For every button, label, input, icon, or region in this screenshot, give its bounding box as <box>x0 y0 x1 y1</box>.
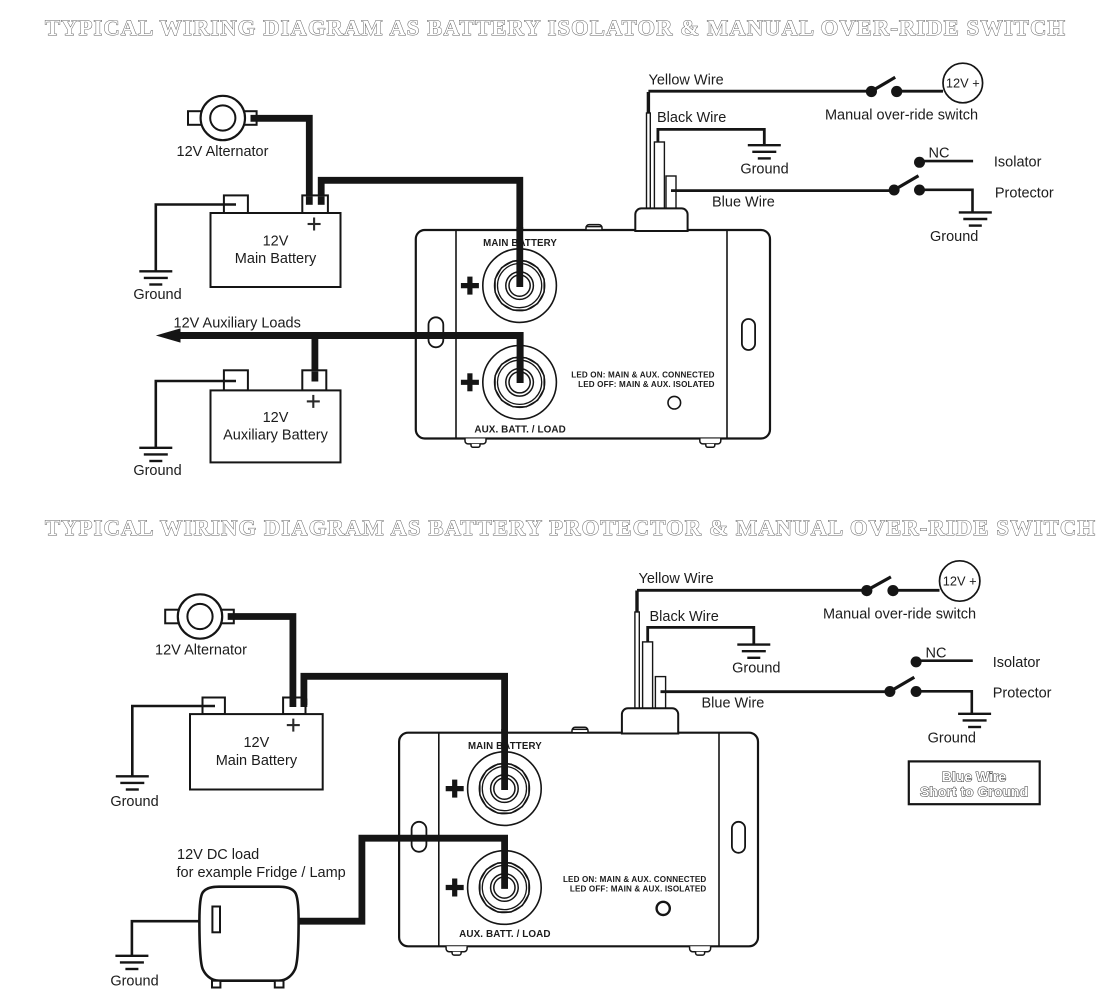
wire main battery B3 negative to ground <box>132 706 215 776</box>
svg-text:LED OFF: MAIN & AUX. ISOLATED: LED OFF: MAIN & AUX. ISOLATED <box>570 885 707 894</box>
blue wire lead and tube (U2) <box>655 677 885 712</box>
ground main battery B3 <box>116 776 149 789</box>
NC contact S2 <box>914 146 973 168</box>
svg-text:Ground: Ground <box>110 974 158 990</box>
foot 2 U2 <box>690 946 711 955</box>
svg-text:Blue Wire: Blue Wire <box>942 769 1007 785</box>
isolator device U2: body <box>399 733 758 947</box>
terminal MAIN BATTERY (U2) <box>468 752 542 826</box>
wire segment into U2 MAIN BATTERY terminal <box>501 729 508 790</box>
battery B3 terminal pin stubs <box>293 699 304 708</box>
manual over-ride switch S3 <box>861 577 939 596</box>
svg-text:LED ON: MAIN & AUX. CONNECTED: LED ON: MAIN & AUX. CONNECTED <box>571 370 714 379</box>
svg-text:Ground: Ground <box>133 287 181 303</box>
black wire lead and tube (U2) <box>643 627 754 712</box>
svg-text:Black Wire: Black Wire <box>657 110 726 126</box>
battery B2 terminal pin stub <box>311 371 318 381</box>
svg-text:Ground: Ground <box>930 229 978 245</box>
svg-text:for example Fridge / Lamp: for example Fridge / Lamp <box>177 865 346 881</box>
svg-text:Yellow Wire: Yellow Wire <box>649 73 724 89</box>
foot 1 U1 <box>465 439 486 448</box>
svg-text:12V Auxiliary Loads: 12V Auxiliary Loads <box>174 316 301 332</box>
label LED legend U2 <box>563 875 706 894</box>
NC contact S4 <box>911 646 973 668</box>
protector switch S2 <box>889 176 973 213</box>
12V+ supply circle S3 <box>940 561 980 601</box>
svg-text:12V Alternator: 12V Alternator <box>177 144 269 160</box>
plus mark main terminal U1 <box>461 277 479 295</box>
screw tab on top edge U2 <box>572 727 588 732</box>
blue wire lead and tube (U1) <box>666 176 890 210</box>
svg-text:12V: 12V <box>263 410 289 426</box>
svg-text:12V +: 12V + <box>946 76 980 91</box>
yellow wire lead into connector (U2) <box>635 591 639 713</box>
mounting slot right U2 <box>732 822 745 853</box>
svg-text:Ground: Ground <box>740 161 788 177</box>
DC load fridge symbol <box>199 887 298 988</box>
yellow wire lead into connector (U1) <box>647 92 651 210</box>
ground protector S4 <box>958 714 991 727</box>
foot 1 U2 <box>446 946 467 955</box>
terminal AUX. BATT. / LOAD (U2) <box>468 851 542 925</box>
wire DC load to ground <box>132 921 200 955</box>
plus mark main terminal U2 <box>446 780 464 798</box>
wire main battery B1 to device U1 MAIN BATTERY terminal <box>321 180 520 287</box>
battery B1 main: terminals <box>211 195 341 287</box>
wire 12V auxiliary loads (arrow) to U1 AUX terminal <box>178 336 520 384</box>
svg-text:Protector: Protector <box>995 185 1054 201</box>
svg-text:LED OFF: MAIN & AUX. ISOLATED: LED OFF: MAIN & AUX. ISOLATED <box>578 380 715 389</box>
protector switch S4 <box>884 677 971 714</box>
yellow wire line to manual over-ride switch S3 <box>637 589 866 592</box>
svg-text:Protector: Protector <box>993 686 1052 702</box>
wiring connector on U2 <box>622 708 678 733</box>
svg-text:Ground: Ground <box>133 463 181 479</box>
svg-text:12V: 12V <box>243 735 269 751</box>
svg-text:LED ON: MAIN & AUX. CONNECTED: LED ON: MAIN & AUX. CONNECTED <box>563 875 706 884</box>
svg-text:Manual over-ride switch: Manual over-ride switch <box>825 108 978 124</box>
battery B3 main: terminals <box>190 698 323 790</box>
svg-text:12V: 12V <box>263 233 289 249</box>
yellow wire line to manual over-ride switch S1 <box>648 90 870 93</box>
ground protector S2 <box>959 212 992 225</box>
svg-text:Auxiliary Battery: Auxiliary Battery <box>223 428 329 444</box>
svg-text:Short to Ground: Short to Ground <box>920 784 1028 800</box>
ground DC load <box>115 956 148 969</box>
note box: Blue Wire Short to Ground <box>909 761 1040 804</box>
mounting slot left U1 <box>429 317 444 347</box>
wire main battery B3 to device U2 MAIN BATTERY terminal <box>304 676 505 790</box>
wire auxiliary battery B2 negative to ground <box>156 381 236 448</box>
svg-text:Isolator: Isolator <box>993 655 1041 671</box>
ground auxiliary battery B2 <box>139 448 172 461</box>
terminal MAIN BATTERY (U1) <box>483 249 557 323</box>
mounting slot right U1 <box>742 319 755 350</box>
mounting slot left U2 <box>412 822 427 852</box>
ground black wire U1 <box>748 145 781 158</box>
svg-text:Blue Wire: Blue Wire <box>702 696 765 712</box>
plus terminal mark B2 auxiliary <box>307 395 320 408</box>
black wire lead and tube (U1) <box>654 129 764 210</box>
svg-text:NC: NC <box>929 146 950 162</box>
svg-text:Main Battery: Main Battery <box>216 753 298 769</box>
wire DC load to U2 AUX terminal <box>298 838 505 921</box>
ground main battery B1 <box>139 271 172 284</box>
svg-text:Blue Wire: Blue Wire <box>712 195 775 211</box>
svg-text:12V Alternator: 12V Alternator <box>155 643 247 659</box>
svg-text:Black Wire: Black Wire <box>650 609 719 625</box>
12V+ supply circle S1 <box>943 63 983 103</box>
svg-text:NC: NC <box>926 646 947 662</box>
svg-text:Main Battery: Main Battery <box>235 251 317 267</box>
plus mark aux terminal U2 <box>446 879 464 897</box>
LED indicator U1 <box>668 396 681 409</box>
label 12V DC load / for example Fridge / Lamp <box>177 847 346 881</box>
svg-text:Manual over-ride switch: Manual over-ride switch <box>823 607 976 623</box>
plus terminal mark B1 main <box>308 218 321 231</box>
wiring connector on U1 <box>635 208 687 231</box>
svg-text:Ground: Ground <box>110 794 158 810</box>
svg-text:12V DC load: 12V DC load <box>177 847 259 863</box>
battery B1 terminal pin stubs <box>309 196 321 204</box>
svg-text:AUX. BATT. / LOAD: AUX. BATT. / LOAD <box>459 929 550 940</box>
alternator G2 <box>165 594 234 638</box>
foot 2 U1 <box>700 439 721 448</box>
svg-text:Isolator: Isolator <box>994 155 1042 171</box>
svg-text:TYPICAL WIRING DIAGRAM AS BATT: TYPICAL WIRING DIAGRAM AS BATTERY ISOLAT… <box>45 15 1065 40</box>
label LED legend U1 <box>571 370 714 389</box>
svg-text:Ground: Ground <box>732 660 780 676</box>
ground black wire U2 <box>737 645 770 658</box>
svg-text:Ground: Ground <box>928 730 976 746</box>
wire main battery B1 negative to ground <box>156 205 236 272</box>
wire G1 output to main battery B1 positive <box>251 118 310 204</box>
svg-text:TYPICAL WIRING DIAGRAM AS BATT: TYPICAL WIRING DIAGRAM AS BATTERY PROTEC… <box>45 515 1095 540</box>
plus terminal mark B3 main <box>287 719 300 732</box>
screw tab on top edge U1 <box>586 225 602 230</box>
wire auxiliary battery B2 positive to aux loads line <box>311 338 318 375</box>
LED indicator U2 <box>657 902 670 915</box>
battery B2 auxiliary: terminals <box>211 370 341 462</box>
svg-text:Yellow Wire: Yellow Wire <box>639 571 714 587</box>
manual over-ride switch S1 <box>866 77 943 97</box>
svg-text:12V +: 12V + <box>943 574 977 589</box>
svg-text:AUX. BATT. / LOAD: AUX. BATT. / LOAD <box>474 425 565 436</box>
terminal AUX. BATT. / LOAD (U1) <box>483 346 557 420</box>
wire G2 output to main battery B3 positive <box>228 617 293 706</box>
wire segment into U1 MAIN BATTERY terminal <box>516 227 523 287</box>
plus mark aux terminal U1 <box>461 373 479 391</box>
alternator G1 <box>188 96 257 140</box>
isolator device U1: body <box>416 230 770 439</box>
